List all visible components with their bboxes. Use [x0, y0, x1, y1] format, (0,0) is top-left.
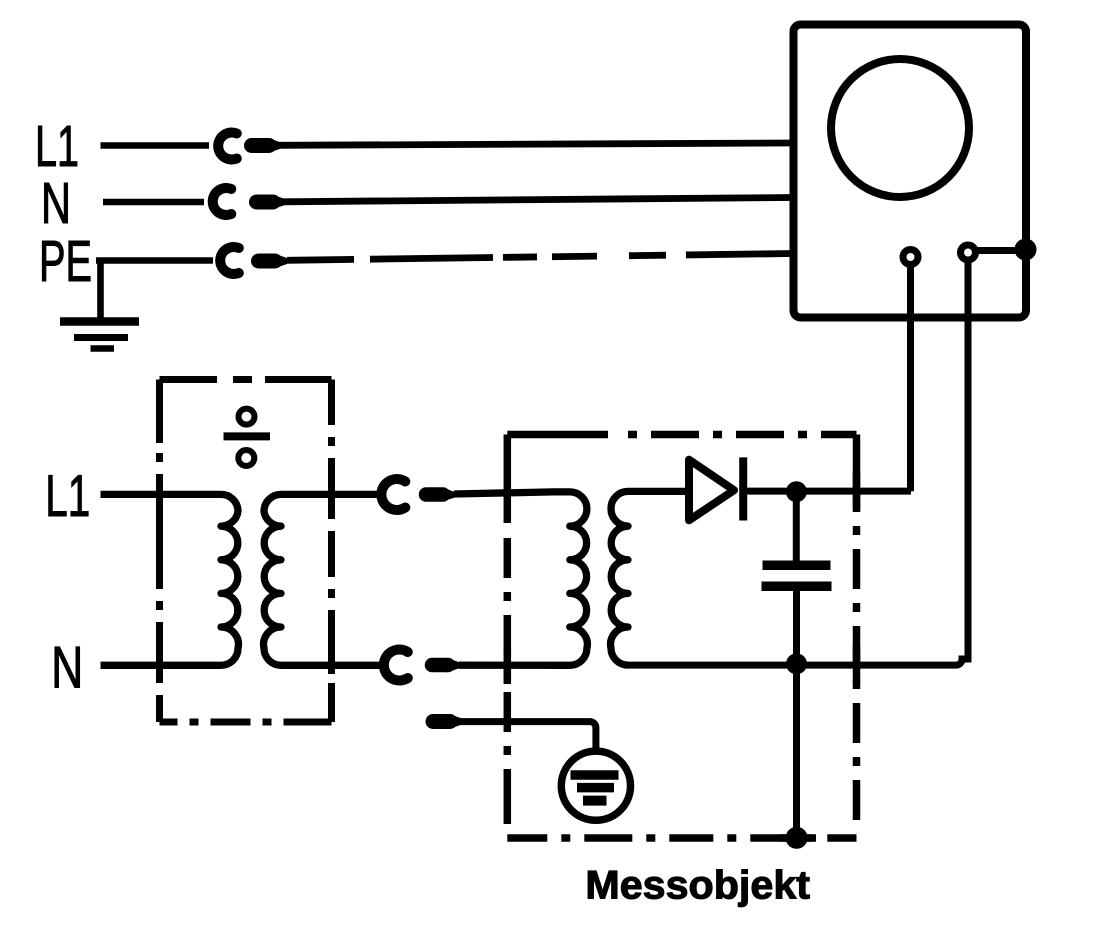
T1 box left edge dash-dot: [156, 443, 163, 722]
capacitor C1 top plate: [763, 561, 831, 571]
isolation symbol divider: [224, 432, 271, 440]
junction on meter edge: [1015, 239, 1037, 261]
plug pin X2.N: [432, 658, 448, 673]
svg-text:PE: PE: [39, 229, 92, 294]
wire L1 to socket: [101, 142, 210, 149]
T1 box right edge dash-dot: [328, 425, 335, 722]
T1 box top edge segment: [265, 376, 332, 383]
Messobjekt box right edge dash-dot: [853, 470, 861, 838]
capacitor C1 bottom plate: [762, 581, 832, 591]
capacitor C1 top lead: [793, 494, 800, 561]
Messobjekt right edge crossing diode rail: [853, 471, 861, 510]
svg-text:Messobjekt: Messobjekt: [585, 864, 810, 908]
T1 box left edge crossing N: [156, 645, 163, 683]
Messobjekt box right edge corner: [853, 435, 861, 471]
T1 box top edge dash: [233, 376, 252, 383]
transformer T2 secondary winding: [611, 491, 689, 665]
transformer T2 primary winding (with leads to plug pins): [454, 492, 587, 665]
earth symbol bar 2: [577, 783, 614, 793]
svg-text:L1: L1: [45, 463, 90, 529]
wire terminal1 down: [907, 265, 914, 492]
protective earth symbol (circle): [561, 751, 630, 820]
socket contact X1.L1: [218, 133, 237, 160]
T1 box right edge crossing L1: [328, 470, 335, 514]
wire L1 to meter: [278, 143, 793, 145]
svg-text:N: N: [51, 635, 83, 701]
T1 box right edge corner: [328, 380, 335, 426]
junction node diode output: [786, 481, 807, 502]
socket contact X2.L1: [381, 479, 405, 510]
capacitor C1 bottom lead down to enclosure: [793, 591, 800, 839]
ground bar 3: [91, 345, 115, 352]
earth symbol bar 1: [571, 770, 619, 780]
svg-text:L1: L1: [35, 114, 79, 179]
wire diode cathode to meter wire: [743, 488, 911, 495]
Messobjekt box top edge corner: [507, 431, 608, 439]
isolation symbol circle 2: [238, 450, 254, 466]
bottom rail wire from T2 secondary to meter terminal 2: [627, 260, 968, 665]
plug pin X2.L1: [426, 487, 443, 502]
wire N to meter: [282, 198, 793, 202]
meter U1 (measuring instrument): [794, 25, 1027, 318]
plug pin N: [257, 195, 274, 210]
safety isolating transformer symbol: [224, 409, 271, 466]
Messobjekt box left edge corner: [504, 435, 512, 524]
T1 box left edge corner: [156, 380, 163, 444]
transformer T1 primary winding (with L1 / N leads): [101, 494, 239, 665]
Messobjekt enclosure (dash-dot box): [507, 435, 856, 839]
wire terminal2 to case edge: [976, 247, 1023, 254]
svg-text:N: N: [41, 171, 71, 236]
ground bar 2: [74, 334, 128, 341]
ground symbol: [60, 322, 139, 349]
socket contact X1.N: [213, 188, 232, 215]
T1 box bottom edge dash-dot: [160, 719, 332, 726]
Messobjekt left edge crossing N rail: [504, 648, 512, 684]
diode D1 triangle: [689, 460, 734, 521]
meter dial circle: [831, 59, 969, 197]
Messobjekt box top edge dash-dot: [608, 431, 857, 439]
T1 box left edge crossing L1: [156, 474, 163, 558]
Messobjekt right edge crossing bottom rail: [853, 645, 861, 683]
Messobjekt bottom edge crossing at junction: [779, 834, 816, 842]
meter terminal 1: [903, 250, 918, 265]
socket contact X2.N: [384, 649, 408, 680]
wire PE to socket: [96, 257, 213, 264]
transformer T1 secondary winding: [264, 494, 383, 665]
earth bars inside circle: [571, 775, 619, 801]
plug pin X2.PE (unconnected): [433, 714, 450, 729]
junction node capacitor bottom: [786, 653, 807, 674]
plug pin PE: [259, 254, 276, 269]
isolation symbol circle 1: [239, 409, 255, 425]
transformer T1 enclosure (dash-dot box): [160, 380, 332, 723]
wire earth pin to earth symbol: [461, 722, 596, 752]
wire N to socket: [103, 199, 204, 206]
diode D1 cathode bar: [739, 457, 747, 520]
T1 box right edge crossing N: [328, 612, 335, 674]
socket contact X1.PE: [220, 247, 239, 274]
T1 box top edge segment: [160, 376, 218, 383]
earth symbol bar 3: [583, 796, 607, 806]
ground bar 1: [60, 317, 139, 326]
plug pin L1: [252, 138, 270, 153]
Messobjekt box bottom edge dash-dot: [507, 834, 856, 842]
junction node on enclosure bottom: [786, 827, 808, 849]
Messobjekt box left edge dash-dot: [504, 523, 512, 838]
meter terminal 2: [961, 245, 976, 260]
wire PE dashed to meter: [287, 254, 793, 261]
wire PE down to earth: [97, 258, 104, 321]
